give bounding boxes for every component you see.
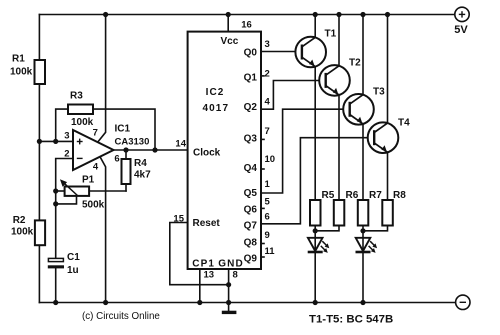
wire T2 collector to rail [338, 15, 340, 66]
wire reset pin15 to GND net [170, 223, 229, 285]
svg-text:T4: T4 [398, 118, 410, 129]
wire Q5 to T3 base [261, 109, 350, 193]
wire bottom rail [39, 302, 455, 304]
node LED1 anode [313, 228, 318, 233]
svg-text:R6: R6 [346, 190, 359, 201]
svg-text:T3: T3 [373, 87, 385, 98]
wire op-amp pin7 supply [98, 15, 105, 142]
svg-text:Q6: Q6 [244, 205, 258, 216]
wire IC2 pin16 Vcc [227, 15, 229, 32]
ground symbol [222, 311, 237, 314]
svg-text:6: 6 [265, 212, 270, 223]
wire Q2 to T2 base [261, 81, 326, 110]
node T3 collector on rail [360, 12, 365, 17]
node T4 collector on rail [385, 12, 390, 17]
node LED2 anode [360, 228, 365, 233]
pin stub Q4 [261, 168, 264, 170]
resistor R2 [35, 220, 45, 245]
pin stub Q3 [261, 138, 264, 140]
svg-text:1: 1 [265, 179, 271, 190]
node pin16 on top rail [226, 12, 231, 17]
svg-text:Clock: Clock [193, 148, 221, 159]
svg-text:Q5: Q5 [244, 188, 258, 199]
svg-text:T2: T2 [349, 58, 361, 69]
wire C1 bottom to rail [55, 268, 57, 302]
svg-text:5: 5 [265, 196, 271, 207]
svg-text:16: 16 [241, 20, 252, 31]
node P1 left [53, 188, 58, 193]
battery plus terminal [455, 7, 469, 21]
svg-text:(c) Circuits Online: (c) Circuits Online [82, 311, 160, 322]
node R4 top on output [123, 147, 128, 152]
svg-text:GND: GND [218, 258, 244, 269]
node R3 left on pin3 wire [53, 139, 58, 144]
wire op-amp output to clock pin14 [114, 149, 188, 151]
svg-text:Q3: Q3 [244, 134, 258, 145]
svg-text:4: 4 [93, 162, 99, 173]
svg-text:500k: 500k [82, 200, 105, 211]
wire Q7 to T4 base [261, 138, 374, 224]
wire R7 bottom to LED2 [362, 226, 364, 252]
battery minus terminal [456, 295, 470, 309]
svg-text:IC1: IC1 [115, 124, 131, 135]
svg-text:4: 4 [265, 97, 271, 108]
svg-text:10: 10 [265, 154, 276, 165]
svg-text:100k: 100k [71, 117, 94, 128]
svg-text:7: 7 [93, 128, 98, 139]
resistor R3 [68, 105, 93, 115]
svg-text:C1: C1 [67, 252, 80, 263]
wire T3 emitter to R7 [362, 124, 364, 200]
wire left column bottom (R2 to bottom rail) [38, 245, 40, 302]
resistor R1 [35, 60, 46, 84]
wire T3 collector to rail [362, 15, 364, 95]
svg-text:3: 3 [64, 131, 69, 142]
node pin8 on rail [226, 300, 231, 305]
svg-text:Q1: Q1 [244, 73, 258, 84]
wire op-amp pin2 to P1/C1 column [56, 159, 73, 259]
svg-text:Q0: Q0 [244, 47, 258, 58]
op-amp plus input marker [77, 139, 83, 159]
potentiometer P1 wiper arrow [61, 181, 78, 196]
pin stub Q8 [261, 243, 264, 245]
wire top rail [39, 14, 454, 16]
svg-text:R8: R8 [393, 190, 406, 201]
svg-text:13: 13 [204, 270, 215, 281]
wire R3 right lead feedback [93, 109, 155, 150]
node reset to pin8 [226, 282, 231, 287]
svg-text:R2: R2 [13, 215, 26, 226]
svg-text:3: 3 [265, 39, 270, 50]
resistor R6 [334, 200, 345, 226]
node T2 collector on rail [336, 12, 341, 17]
svg-text:4k7: 4k7 [134, 170, 151, 181]
wire R5 bottom to LED1 [314, 226, 316, 252]
IC2 4017 body [188, 32, 261, 269]
svg-text:2: 2 [265, 69, 270, 80]
wire IC2 pin8 to ground [228, 269, 230, 312]
svg-text:6: 6 [114, 154, 119, 165]
svg-text:R1: R1 [12, 54, 25, 65]
svg-text:1u: 1u [67, 265, 79, 276]
LED D2 [356, 238, 378, 253]
resistor R4 [122, 159, 131, 184]
wire LED1 cathode to rail [314, 252, 316, 303]
wire left column top (rail to R1) [38, 15, 40, 61]
svg-text:R3: R3 [70, 91, 83, 102]
wire T4 collector to rail [387, 15, 389, 124]
node pin4 on rail [103, 300, 108, 305]
svg-text:Reset: Reset [193, 218, 221, 229]
capacitor C1 [48, 258, 64, 268]
wire T1 emitter to R5 [314, 67, 316, 201]
potentiometer P1 body [65, 187, 90, 196]
svg-text:100k: 100k [11, 227, 34, 238]
node T1 collector on rail [313, 12, 318, 17]
svg-text:P1: P1 [82, 175, 95, 186]
svg-text:7: 7 [265, 126, 270, 137]
svg-text:Q8: Q8 [244, 237, 258, 248]
wire op-amp pin3 input [39, 140, 73, 142]
svg-text:R5: R5 [322, 190, 335, 201]
svg-text:14: 14 [175, 139, 186, 150]
wire R8 bottom to LED2 node [363, 226, 388, 231]
svg-text:T1: T1 [325, 29, 337, 40]
wire P1 left lead [56, 190, 65, 192]
resistor R5 [310, 200, 321, 226]
pin stub Q9 [261, 256, 264, 258]
op-amp minus input marker [77, 157, 83, 159]
wire P1 wiper return [56, 196, 77, 204]
node R3 right on output [152, 147, 157, 152]
wire R4 top lead [125, 150, 127, 159]
wire T1 collector to rail [314, 15, 316, 38]
node divider to pin3 [37, 139, 42, 144]
wire P1 right lead to R4 [89, 190, 126, 192]
node LED2 on rail [360, 300, 365, 305]
svg-text:5V: 5V [454, 24, 468, 36]
svg-text:100k: 100k [10, 67, 33, 78]
svg-text:IC2: IC2 [206, 87, 225, 98]
svg-text:8: 8 [233, 270, 238, 281]
LED D1 [308, 238, 330, 253]
svg-text:11: 11 [265, 246, 276, 257]
svg-text:T1-T5: BC 547B: T1-T5: BC 547B [309, 314, 393, 326]
wire IC2 pin13 to rail [199, 269, 201, 303]
svg-text:CP1: CP1 [192, 258, 215, 269]
wire R4 bottom lead [125, 184, 127, 191]
node pin13 on rail [197, 300, 202, 305]
svg-text:Q2: Q2 [244, 102, 258, 113]
svg-text:Vcc: Vcc [221, 36, 239, 47]
svg-text:R4: R4 [134, 158, 147, 169]
svg-text:R7: R7 [369, 190, 382, 201]
svg-text:Q7: Q7 [244, 221, 258, 232]
wire R3 left lead [56, 109, 68, 141]
wire T4 emitter to R8 [387, 152, 389, 200]
wire left column middle (R1 to R2) [38, 84, 40, 220]
transistor T3 [343, 94, 374, 125]
transistor T4 [368, 122, 399, 153]
resistor R8 [382, 200, 393, 226]
svg-text:Q4: Q4 [244, 163, 258, 174]
node LED1 on rail [313, 300, 318, 305]
wire op-amp pin4 to ground rail [100, 157, 105, 302]
svg-text:Q9: Q9 [244, 254, 258, 265]
transistor T2 [319, 65, 350, 96]
wire LED2 cathode to rail [362, 252, 364, 303]
svg-text:9: 9 [265, 230, 270, 241]
wire T2 emitter to R6 [338, 95, 340, 200]
wire Q0 to T1 base [261, 51, 302, 53]
op-amp U1 triangle [73, 130, 114, 170]
svg-text:CA3130: CA3130 [115, 137, 150, 148]
svg-text:15: 15 [173, 214, 184, 225]
svg-text:2: 2 [64, 149, 69, 160]
transistor T1 [295, 37, 326, 68]
wire R6 bottom to LED1 node [315, 226, 339, 231]
pin stub Q1 [261, 75, 264, 77]
node C1 on rail [53, 300, 58, 305]
svg-text:4017: 4017 [202, 103, 229, 114]
node P1 wiper [53, 201, 58, 206]
resistor R7 [358, 200, 369, 226]
pin stub Q6 [261, 207, 264, 209]
node pin7 on top rail [103, 12, 108, 17]
